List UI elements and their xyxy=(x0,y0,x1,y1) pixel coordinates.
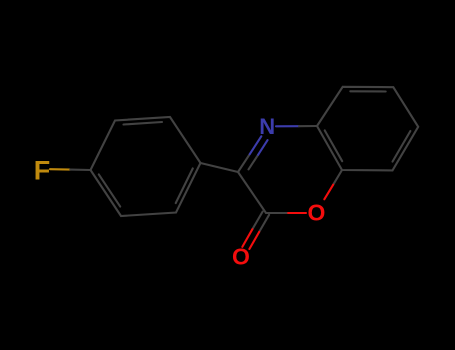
svg-text:O: O xyxy=(308,199,326,225)
svg-text:F: F xyxy=(34,155,51,185)
bond C3=N inner line gray half xyxy=(249,155,259,170)
benzo double bond inner line right (R-BR) xyxy=(393,131,411,162)
bond C2=O left line gray half xyxy=(252,212,262,230)
phenyl double bond inner line top (TL-TR) xyxy=(124,122,163,125)
bond O1-C2 red half xyxy=(287,212,307,214)
phenyl double bond inner line left (BL-L) xyxy=(99,174,120,206)
bond N-C4a gray half xyxy=(299,125,317,127)
bond C2=O right line gray half xyxy=(259,215,269,232)
benzo ring outline xyxy=(317,87,418,171)
benzo double bond inner line top (T1-T2) xyxy=(350,90,385,92)
phenyl ring outline xyxy=(91,117,201,216)
bond C3=N main gray half xyxy=(238,154,250,172)
bond C3=N inner line blue half xyxy=(258,140,268,155)
bond C2=O left line red half xyxy=(242,229,252,247)
bond C2-C3 xyxy=(238,172,266,213)
benzo double bond inner line fused edge (C8a-C4a) xyxy=(325,130,343,161)
bond F-C1 gray half xyxy=(70,169,90,171)
svg-text:O: O xyxy=(232,244,250,270)
bond C8a-O1 red half xyxy=(324,185,333,200)
bond phenyl-C3 xyxy=(201,163,239,172)
phenyl double bond inner line right (R-BR) xyxy=(176,168,193,203)
bond C2=O right line red half xyxy=(249,232,259,249)
bond C8a-O1 gray half xyxy=(333,170,342,185)
svg-text:N: N xyxy=(259,114,275,139)
bond C3=N main blue half xyxy=(250,136,262,154)
bond F-C1 gold half xyxy=(50,168,70,171)
bond N-C4a blue half xyxy=(276,125,299,127)
bond O1-C2 gray half xyxy=(266,212,287,214)
